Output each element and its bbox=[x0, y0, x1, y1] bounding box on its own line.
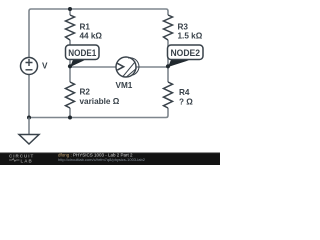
junction dot bottom rail / source bbox=[27, 116, 31, 120]
svg-text:R3: R3 bbox=[178, 22, 189, 31]
junction dot top rail / R1 bbox=[68, 7, 72, 11]
wire node A to R2 top bbox=[69, 67, 71, 82]
node NODE1 label bbox=[66, 45, 100, 68]
resistor R1 bbox=[66, 15, 103, 41]
wire node A to voltmeter left terminal bbox=[70, 66, 116, 68]
footer title text bbox=[58, 153, 133, 158]
svg-text:R2: R2 bbox=[80, 87, 91, 96]
wire ground stub bbox=[28, 118, 30, 135]
svg-text:variable Ω: variable Ω bbox=[80, 97, 120, 106]
ground bbox=[19, 135, 39, 145]
resistor R4 bbox=[164, 82, 194, 108]
svg-text:? Ω: ? Ω bbox=[179, 97, 193, 106]
svg-text:R4: R4 bbox=[179, 88, 190, 97]
svg-text:CIRCUIT: CIRCUIT bbox=[9, 153, 34, 158]
footer bar bbox=[0, 153, 220, 166]
footer url text bbox=[58, 157, 146, 162]
wire R4 bottom to bottom rail bbox=[167, 108, 169, 116]
wire R3 branch top stub bbox=[167, 11, 169, 15]
wire voltmeter right terminal to node B bbox=[136, 66, 168, 68]
wire top rail bbox=[29, 9, 168, 11]
svg-text:NODE1: NODE1 bbox=[68, 48, 96, 58]
svg-text:http://circuitlab.com/c/hrfm7q: http://circuitlab.com/c/hrfm7q8/physics-… bbox=[58, 157, 146, 162]
voltmeter VM1 bbox=[116, 57, 139, 90]
wire bottom rail bbox=[29, 116, 168, 118]
wire R1 bottom to node A bbox=[69, 40, 71, 67]
svg-text:44 kΩ: 44 kΩ bbox=[80, 32, 103, 41]
resistor R2 bbox=[66, 82, 120, 108]
voltage source V bbox=[21, 58, 49, 75]
wire node B to R4 top bbox=[167, 67, 169, 82]
svg-text:LAB: LAB bbox=[21, 158, 33, 163]
footer logo CIRCUITLAB bbox=[9, 153, 34, 163]
svg-text:VM1: VM1 bbox=[116, 81, 133, 90]
svg-text:V: V bbox=[42, 61, 48, 70]
wire R2 bottom to bottom rail bbox=[69, 108, 71, 118]
svg-text:1.5 kΩ: 1.5 kΩ bbox=[178, 32, 203, 41]
node NODE2 label bbox=[166, 45, 203, 68]
wire R1 branch top stub bbox=[69, 9, 71, 15]
junction dot bottom rail / R2 bbox=[68, 116, 72, 120]
wire left branch upper (top rail to source) bbox=[28, 11, 30, 58]
resistor R3 bbox=[164, 15, 203, 41]
wire left branch lower (source to ground node) bbox=[28, 75, 30, 118]
wire R3 bottom to node B bbox=[167, 40, 169, 67]
svg-text:NODE2: NODE2 bbox=[171, 48, 201, 58]
svg-text:R1: R1 bbox=[80, 22, 91, 31]
